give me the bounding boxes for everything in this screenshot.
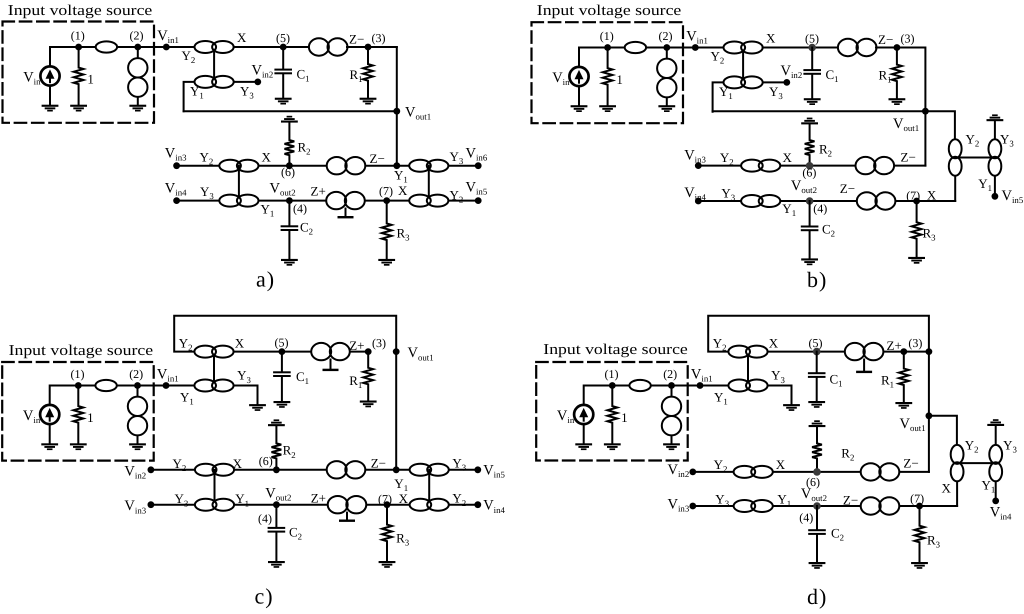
node Vin3 (b)	[695, 162, 702, 169]
conveyor nullator pair vertical Y3-Y1 (d)	[989, 445, 1002, 481]
wire Vin1 to Y2/X (b)	[695, 47, 762, 49]
node 2 junction (a)	[134, 44, 141, 51]
conveyor nullator pair Y3-Y1 row2 (a)	[219, 195, 258, 207]
conveyor nullator pair Y1-Y3 (d)	[728, 380, 767, 392]
svg-text:X: X	[398, 183, 408, 198]
node 1 junction (d)	[609, 382, 616, 389]
ground under R1 (d)	[895, 402, 912, 409]
resistor R3 (a)	[382, 201, 392, 259]
wire node2 to Vin1 (d)	[672, 385, 701, 387]
resistor 1 ohm (c)	[73, 386, 83, 444]
ground under C2 (d)	[809, 562, 826, 569]
wire ground to Y3 (d)	[995, 426, 997, 445]
ground under R1 (c)	[360, 401, 377, 408]
svg-text:(4): (4)	[799, 510, 813, 524]
wire X to node3 (c)	[234, 351, 369, 353]
svg-text:1: 1	[621, 410, 628, 425]
ground under norator (a)	[129, 105, 146, 112]
wire node5 to C1 (c)	[281, 352, 283, 372]
wire Y3 to ground (d)	[768, 386, 792, 404]
input voltage source box (b)	[532, 22, 684, 123]
wire conveyor internal (b)	[742, 48, 744, 83]
norator Z+ row2 (c)	[328, 496, 367, 513]
svg-text:X: X	[942, 481, 952, 496]
wire Vout1 to Y2 (d)	[929, 416, 957, 445]
svg-text:(3): (3)	[901, 32, 915, 46]
svg-text:(3): (3)	[372, 31, 386, 45]
wire conveyor internal horizontal (d)	[957, 462, 996, 464]
wire right conveyor connector (c)	[428, 470, 430, 505]
inverted ground above Y3 (d)	[987, 419, 1004, 426]
node 5 junction (d)	[813, 348, 821, 356]
svg-text:Input voltage source: Input voltage source	[543, 342, 688, 358]
svg-text:X: X	[776, 457, 786, 472]
wire conveyor internal (c)	[213, 352, 215, 386]
wire node5 to C1 (a)	[282, 47, 284, 69]
resistor R2 (b)	[805, 124, 815, 166]
wire node2 to norator (c)	[137, 386, 139, 398]
conveyor nullator pair Y2-X row1 (b)	[741, 160, 780, 172]
wire node2 to norator (b)	[666, 48, 668, 60]
ground under resistor 1 (a)	[70, 105, 87, 112]
feedback wire Y1 to Vout1 (a)	[184, 110, 397, 112]
input voltage source box (a)	[3, 22, 155, 123]
ground under C1 (a)	[275, 98, 292, 105]
ground under Z+ norator (c)	[330, 360, 332, 369]
svg-text:Z+: Z+	[311, 184, 326, 199]
node Vout1 (d)	[926, 412, 933, 419]
ground under C2 (c)	[268, 561, 285, 568]
wire C2 to ground (b)	[809, 231, 811, 258]
capacitor C2 (c)	[268, 527, 286, 533]
node 4 junction (d)	[813, 502, 821, 510]
wire row2 Vin3 to X (d)	[693, 505, 957, 507]
norator (d)	[662, 397, 681, 436]
wire norator to ground (d)	[671, 426, 673, 444]
svg-text:(2): (2)	[659, 29, 673, 43]
wire Vin1 to Y2/X (a)	[166, 46, 233, 48]
conveyor nullator pair right row2 (c)	[410, 499, 449, 511]
svg-text:(6): (6)	[281, 165, 295, 179]
node 3 junction (d)	[900, 348, 907, 355]
ground under Z+ norator row2 (c)	[346, 513, 348, 520]
wire Vin to ground (d)	[583, 424, 585, 443]
svg-text:b): b)	[807, 267, 827, 292]
node 6 junction (d)	[813, 468, 821, 476]
node 7 junction (d)	[916, 503, 923, 510]
conveyor nullator pair Y2-X (b)	[724, 42, 763, 54]
node 4 junction (c)	[273, 501, 280, 508]
wire Vin to node 1 (b)	[579, 48, 608, 68]
svg-text:X: X	[783, 150, 793, 165]
norator Z+ row2 (a)	[326, 192, 365, 209]
wire Y3 to Vin2 (a)	[234, 81, 258, 83]
resistor R1 (c)	[363, 352, 373, 401]
svg-text:1: 1	[87, 410, 94, 425]
node Vin6 (a)	[475, 162, 482, 169]
node Vout1 (a)	[393, 108, 400, 115]
norator (b)	[657, 59, 676, 98]
wire Vin to ground (c)	[49, 424, 51, 443]
node Vin4 (a)	[173, 197, 180, 204]
norator (c)	[128, 397, 147, 436]
node 6 junction (b)	[806, 162, 814, 170]
wire node1 to node2 (b)	[608, 47, 667, 49]
inverted ground above R2 (a)	[281, 116, 298, 123]
svg-text:c): c)	[255, 583, 274, 608]
resistor R2 (a)	[285, 123, 295, 166]
svg-text:Z+: Z+	[887, 338, 902, 353]
ground under norator (d)	[663, 443, 680, 450]
node 5 junction (b)	[808, 44, 816, 52]
input voltage source box (d)	[536, 362, 688, 461]
wire norator to ground (b)	[666, 88, 668, 106]
ground under resistor 1 (b)	[599, 105, 616, 112]
input voltage source box (c)	[2, 362, 154, 461]
resistor R2 (d)	[812, 427, 822, 472]
conveyor nullator pair Y3-Y1 row2 (b)	[741, 195, 780, 207]
wire Vin to node 1 (a)	[50, 47, 79, 67]
wire ground to Y3 (b)	[994, 121, 996, 140]
svg-text:(4): (4)	[258, 511, 272, 525]
wire left conveyor connector (c)	[214, 470, 216, 505]
wire node2 to Vin1 (a)	[138, 46, 167, 48]
inverted ground above R2 (d)	[809, 420, 826, 427]
norator Z- (b)	[838, 39, 877, 56]
svg-text:(1): (1)	[71, 367, 85, 381]
inverted ground above R2 (c)	[268, 419, 285, 426]
svg-text:(5): (5)	[805, 32, 819, 46]
svg-text:X: X	[235, 335, 245, 350]
wire row1 Vin3 to Vin6 (a)	[177, 165, 479, 167]
wire node5 to C1 (b)	[811, 48, 813, 70]
svg-text:(7): (7)	[379, 184, 393, 198]
node Vin1 (d)	[697, 382, 704, 389]
wire Y1 down (a)	[184, 82, 195, 111]
svg-text:Z−: Z−	[903, 455, 918, 470]
capacitor C2 (a)	[281, 225, 299, 231]
node 4 junction (a)	[286, 197, 293, 204]
wire node2 to Vin1 (c)	[138, 385, 167, 387]
wire norator to ground (a)	[137, 87, 139, 105]
ground under Vin (d)	[575, 443, 592, 450]
wire Vout1 down to Y1 junction (a)	[396, 111, 398, 166]
conveyor nullator pair X-Y2 row2 (a)	[409, 195, 448, 207]
svg-text:Z−: Z−	[843, 493, 858, 508]
svg-text:X: X	[233, 456, 243, 471]
ground under norator (c)	[129, 443, 146, 450]
ground under R3 (c)	[379, 561, 396, 568]
svg-text:Z−: Z−	[878, 32, 893, 47]
wire X to norator (b)	[763, 47, 839, 49]
svg-text:Input voltage source: Input voltage source	[8, 3, 153, 19]
wire row2 Vin4 to X (b)	[698, 200, 955, 202]
voltage source Vin (b)	[569, 67, 588, 86]
wire node1 to node2 (d)	[612, 385, 671, 387]
svg-text:X: X	[399, 491, 409, 506]
wire row2 Vin4 to Vin5 (a)	[177, 200, 479, 202]
inverted ground above R2 (b)	[801, 118, 818, 125]
node Vin1 (c)	[163, 382, 170, 389]
wire node4 to C2 (a)	[288, 201, 290, 226]
conveyor nullator pair right row1 (c)	[410, 464, 449, 476]
voltage source Vin (c)	[40, 405, 59, 424]
ground under resistor 1 (c)	[70, 443, 87, 450]
wire C1 to ground (b)	[811, 75, 813, 98]
conveyor nullator pair Y2-X row1 (a)	[219, 160, 258, 172]
ground under Vin (b)	[571, 105, 588, 112]
norator (a)	[128, 58, 147, 97]
conveyor nullator pair Y2-X (a)	[195, 41, 234, 53]
nullator (c)	[95, 380, 116, 391]
wire Y3 to Vin2 (b)	[763, 81, 787, 83]
node 7 junction (c)	[384, 501, 391, 508]
svg-text:1: 1	[616, 72, 623, 87]
resistor R1 (a)	[363, 47, 373, 98]
ground under R3 (d)	[911, 562, 928, 569]
svg-text:Z−: Z−	[840, 181, 855, 196]
capacitor C1 (c)	[273, 371, 291, 377]
norator Z- row1 (c)	[327, 461, 366, 478]
svg-text:Z−: Z−	[349, 32, 364, 47]
capacitor C1 (b)	[803, 69, 821, 75]
wire right conveyor connector (a)	[428, 166, 430, 201]
svg-text:Input voltage source: Input voltage source	[537, 3, 682, 19]
svg-text:a): a)	[256, 267, 275, 292]
norator Z- row1 (a)	[327, 157, 366, 174]
norator Z- (a)	[309, 38, 348, 55]
conveyor nullator pair Y2-X (c)	[194, 346, 233, 358]
wire C2 to ground (c)	[275, 533, 277, 561]
wire Vin to ground (a)	[49, 86, 51, 105]
wire corner down to row1 (d)	[928, 352, 930, 472]
wire norator to node3 (b)	[876, 47, 897, 49]
capacitor C2 (d)	[808, 529, 826, 535]
ground under R1 (b)	[889, 98, 906, 105]
wire Vin1 to Y1 (c)	[166, 385, 234, 387]
nullator (a)	[96, 41, 117, 52]
wire node4 to C2 (c)	[275, 505, 277, 527]
ground under R1 (a)	[360, 98, 377, 105]
voltage source Vin (a)	[40, 66, 59, 85]
svg-text:(2): (2)	[130, 29, 144, 43]
ground under C1 (b)	[804, 98, 821, 105]
feedback wire Y2 to Vout1 (d)	[708, 316, 929, 352]
ground under C1 (c)	[274, 401, 291, 408]
node Vin5 (c)	[474, 466, 481, 473]
wire node3 to corner down (b)	[897, 48, 926, 112]
wire Vout1 to Y2 (b)	[925, 111, 955, 139]
conveyor nullator pair Y2-X (d)	[728, 346, 767, 358]
svg-text:Input voltage source: Input voltage source	[9, 343, 154, 359]
wire left conveyor connector (a)	[238, 166, 240, 201]
node Vin1 (a)	[163, 44, 170, 51]
svg-text:1: 1	[87, 72, 94, 87]
svg-text:X: X	[769, 335, 779, 350]
node Vin3 (a)	[173, 162, 180, 169]
node 4 junction (b)	[806, 197, 814, 205]
node Y1 junction (c)	[393, 466, 400, 473]
node Vin2 (d)	[689, 469, 696, 476]
node 1 junction (b)	[604, 44, 611, 51]
svg-text:d): d)	[807, 584, 827, 609]
ground under Z+ norator (d)	[863, 360, 865, 371]
wire C1 to ground (d)	[816, 378, 818, 401]
wire norator to node3 (a)	[347, 46, 397, 48]
wire row2 Vin3 to Vin4 (c)	[151, 504, 478, 506]
resistor 1 ohm (d)	[607, 386, 617, 444]
svg-text:X: X	[237, 30, 247, 45]
node 7 junction (b)	[913, 198, 920, 205]
svg-text:Z+: Z+	[311, 491, 326, 506]
svg-text:(2): (2)	[663, 367, 677, 381]
norator Z+ (c)	[311, 343, 350, 360]
node corner (d)	[926, 348, 933, 355]
wire Y3 to ground (c)	[234, 386, 258, 404]
svg-text:(3): (3)	[908, 336, 922, 350]
resistor R3 (d)	[915, 506, 925, 562]
resistor R1 (b)	[892, 48, 902, 99]
wire conveyor internal (a)	[213, 47, 215, 82]
svg-text:Z−: Z−	[371, 456, 386, 471]
node Vin1 (b)	[692, 44, 699, 51]
ground under Z+ norator (a)	[345, 209, 347, 217]
nullator (d)	[629, 380, 650, 391]
wire node2 to Vin1 (b)	[667, 47, 696, 49]
conveyor nullator pair Y3-Y1 row2 (c)	[195, 499, 234, 511]
wire node1 to node2 (c)	[78, 385, 137, 387]
ground under C2 (b)	[801, 258, 818, 265]
conveyor nullator pair vertical Y2-X (d)	[951, 445, 964, 481]
node Vin2 (a)	[254, 79, 261, 86]
norator Z- row1 (b)	[856, 157, 895, 174]
norator Z+ (d)	[845, 343, 884, 360]
node Vin4 (d)	[992, 498, 999, 505]
wire conveyor internal (d)	[747, 352, 749, 386]
resistor R1 (d)	[899, 352, 909, 402]
resistor 1 ohm (b)	[603, 48, 613, 106]
conveyor nullator pair vertical Y3-Y1 (b)	[989, 139, 1002, 175]
conveyor nullator pair Y2-X row1 (c)	[195, 464, 234, 476]
svg-text:(7): (7)	[910, 492, 924, 506]
wire node4 to C2 (d)	[816, 506, 818, 529]
wire Y1 down (b)	[713, 82, 724, 111]
node Vin5 (a)	[475, 197, 482, 204]
ground under Vin (c)	[41, 443, 58, 450]
wire node1 to node2 (a)	[79, 46, 138, 48]
wire X down to row2 (b)	[954, 176, 956, 202]
node Vout1 (b)	[922, 108, 929, 115]
node 2 junction (b)	[663, 44, 670, 51]
conveyor nullator pair Y1-Y3 right row1 (a)	[409, 160, 448, 172]
ground under C2 (a)	[281, 259, 298, 266]
svg-text:Z+: Z+	[349, 338, 364, 353]
node 5 junction (c)	[279, 348, 286, 355]
wire node3 corner down to Vout1 (a)	[396, 47, 398, 111]
wire row1 Vin2 to Vin5 (c)	[151, 469, 478, 471]
node 3 junction (c)	[365, 348, 372, 355]
node Vin4 (b)	[695, 198, 702, 205]
node Vin2 (c)	[148, 466, 155, 473]
conveyor nullator pair vertical Y2-X (b)	[949, 139, 962, 175]
wire Vout1 down to Z- (b)	[924, 111, 926, 165]
ground under R3 (b)	[908, 257, 925, 264]
node 2 junction (d)	[668, 382, 675, 389]
svg-text:Z−: Z−	[370, 151, 385, 166]
svg-text:(1): (1)	[600, 29, 614, 43]
inverted ground above Y3 (b)	[987, 114, 1004, 121]
feedback wire Y1 to Vout1 (b)	[713, 110, 926, 112]
wire node2 to norator (a)	[137, 47, 139, 59]
wire Vin to node 1 (c)	[50, 386, 79, 406]
svg-text:(6): (6)	[802, 166, 816, 180]
node 2 junction (c)	[134, 382, 141, 389]
node Y1 junction (a)	[393, 162, 400, 169]
node Vout1 (c)	[393, 348, 400, 355]
svg-text:(2): (2)	[129, 367, 143, 381]
node 5 junction (a)	[280, 44, 287, 51]
node 3 junction (a)	[365, 44, 372, 51]
wire Y1 to Vin5 (b)	[994, 176, 996, 197]
node 3 junction (b)	[894, 44, 901, 51]
wire Vin1 to Y1 (d)	[700, 385, 768, 387]
node 7 junction (a)	[383, 197, 390, 204]
wire X to node3 (d)	[768, 351, 904, 353]
node Vin2 (b)	[783, 79, 790, 86]
node 6 junction (a)	[286, 162, 293, 169]
resistor R2 (c)	[272, 426, 282, 470]
norator Z- row2 (d)	[861, 497, 900, 514]
wire node5 to C1 (d)	[816, 352, 818, 373]
node Vin3 (c)	[148, 501, 155, 508]
wire Vin to node 1 (d)	[584, 386, 613, 406]
svg-text:(5): (5)	[809, 336, 823, 350]
resistor 1 ohm (a)	[74, 47, 84, 105]
svg-text:(7): (7)	[906, 188, 920, 202]
nullator (b)	[625, 42, 646, 53]
feedback wire Y2 to Vout1 (c)	[174, 316, 396, 352]
svg-text:(6): (6)	[259, 454, 273, 468]
ground at Y3 (c)	[249, 404, 266, 411]
ground under resistor 1 (d)	[604, 443, 621, 450]
svg-text:(4): (4)	[293, 202, 307, 216]
ground under C1 (d)	[808, 401, 825, 408]
svg-text:Z−: Z−	[901, 150, 916, 165]
svg-text:(4): (4)	[813, 202, 827, 216]
conveyor nullator pair Y3-Y1 row2 (d)	[734, 500, 773, 512]
node 6 junction (c)	[273, 466, 280, 473]
wire row1 Vin2 to corner (d)	[693, 471, 929, 473]
wire row1 Vin3 to Z- corner (b)	[698, 165, 925, 167]
voltage source Vin (d)	[574, 405, 593, 424]
wire Vin to ground (b)	[578, 86, 580, 105]
svg-text:(1): (1)	[71, 29, 85, 43]
wire Y1 to Vin4 (d)	[995, 481, 997, 501]
svg-text:X: X	[766, 31, 776, 46]
svg-text:(1): (1)	[605, 367, 619, 381]
svg-text:X: X	[927, 187, 937, 202]
ground under R3 (a)	[378, 259, 395, 266]
wire node4 to C2 (b)	[809, 201, 811, 226]
norator Z- row1 (d)	[861, 463, 900, 480]
conveyor nullator pair Y2-X row1 (d)	[734, 466, 773, 478]
norator Z- row2 (b)	[857, 192, 896, 209]
wire C2 to ground (d)	[816, 535, 818, 562]
ground at Y3 (d)	[783, 404, 800, 411]
ground under Vin (a)	[42, 105, 59, 112]
node 1 junction (a)	[75, 44, 82, 51]
capacitor C1 (d)	[808, 372, 826, 378]
